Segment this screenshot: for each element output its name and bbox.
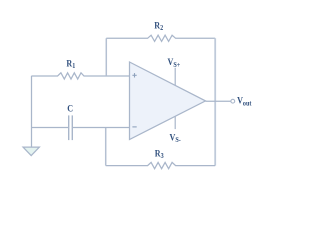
wire bottom loop left vertical	[105, 128, 107, 166]
output terminal circle	[231, 99, 235, 103]
label VS-	[170, 132, 181, 145]
label R1	[66, 58, 75, 71]
resistor R3	[106, 162, 216, 168]
wire left rail	[31, 76, 33, 147]
wire output	[206, 100, 231, 102]
op-amp plus input marker	[132, 73, 136, 77]
capacitor C plate right	[71, 115, 73, 140]
op-amp minus input marker	[132, 126, 136, 128]
label R3	[155, 148, 164, 161]
ground	[23, 147, 39, 156]
capacitor C plate left	[68, 115, 70, 140]
resistor R2	[106, 35, 215, 41]
svg-text:C: C	[67, 103, 73, 114]
label VS+	[168, 56, 181, 69]
wire minus input left segment	[32, 127, 69, 129]
resistor R1	[32, 73, 130, 79]
wire right vertical	[214, 38, 216, 165]
wire minus input right segment	[72, 127, 129, 129]
op-amp U1	[130, 62, 206, 140]
label Vout	[237, 95, 252, 108]
label R2	[154, 20, 163, 33]
wire VS- stub	[174, 115, 176, 130]
wire VS+ stub	[174, 68, 176, 86]
wire top loop left vertical	[105, 38, 107, 76]
label C	[67, 103, 73, 114]
